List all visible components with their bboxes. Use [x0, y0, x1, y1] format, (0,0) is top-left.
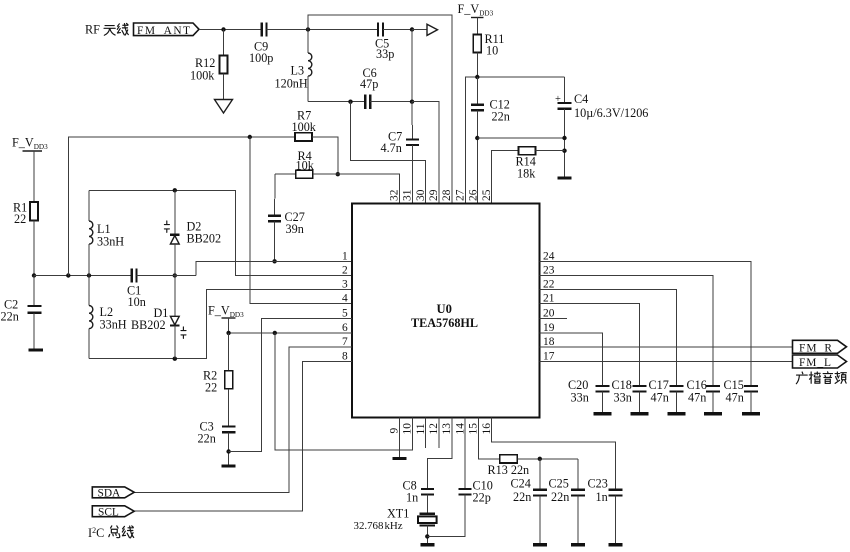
wire pin 18 to FM_R: [540, 346, 793, 348]
svg-text:I2C: I2C: [88, 526, 104, 540]
pin 12 stub: [438, 418, 440, 449]
ground bar C23: [609, 543, 623, 546]
svg-text:22: 22: [14, 212, 26, 226]
ground bar C18: [631, 412, 649, 415]
svg-text:22: 22: [205, 381, 217, 395]
svg-text:26: 26: [468, 189, 480, 201]
svg-text:10: 10: [486, 44, 498, 58]
resistor R14: [492, 147, 565, 204]
svg-text:1n: 1n: [406, 491, 418, 505]
wire pin 6 net: [229, 332, 352, 334]
label R2 22: [203, 369, 217, 395]
capacitor C20: [596, 386, 610, 413]
capacitor C27: [268, 174, 281, 261]
label R11 10: [485, 32, 505, 58]
wire C9 to C5 with L3 tap: [267, 29, 378, 31]
svg-text:3: 3: [342, 278, 348, 290]
wire pin 4: [250, 137, 352, 304]
varactor D1: [170, 276, 186, 359]
tank bottom wire to pin 3: [89, 289, 352, 358]
wire FM_ANT to C9: [199, 29, 261, 31]
label C1 10n: [127, 284, 146, 310]
capacitor C9: [262, 23, 267, 37]
svg-text:6: 6: [342, 322, 348, 334]
capacitor C5: [378, 23, 412, 37]
svg-text:17: 17: [543, 350, 555, 362]
junction L1 L2 mid: [87, 273, 91, 277]
capacitor C1: [132, 269, 196, 283]
wire pin 21 to C18: [540, 304, 640, 386]
svg-text:29: 29: [428, 189, 440, 201]
inductor L2: [89, 306, 93, 359]
svg-text:SCL: SCL: [98, 507, 119, 519]
label C17 47n: [649, 378, 669, 405]
inductor L1: [89, 190, 93, 305]
junction R11 bottom: [475, 75, 479, 79]
power terminal F_VDD3 (left): [12, 136, 48, 203]
junction at L3 top: [306, 27, 310, 31]
ground bar C24: [533, 543, 547, 546]
svg-text:33n: 33n: [614, 391, 632, 405]
label I2C bus (I2C 总线): [88, 526, 134, 540]
svg-text:10: 10: [402, 423, 414, 435]
capacitor C25: [571, 459, 585, 543]
svg-text:31: 31: [402, 189, 414, 201]
wire R4 node to pin 32: [338, 174, 400, 203]
ground bar XT1: [420, 543, 434, 546]
label C10 22p: [473, 479, 493, 505]
ground bar below C2: [29, 348, 44, 351]
capacitor C16: [706, 386, 720, 413]
wire pin 1 to tuning net: [196, 261, 352, 275]
resistor R2: [225, 333, 233, 426]
antenna ground triangle: [215, 100, 233, 114]
wire varactor control net (middle wire): [34, 275, 132, 277]
label R12 100k: [190, 56, 215, 83]
junction C4 at R14 wire: [562, 149, 566, 153]
capacitor C6: [365, 95, 412, 110]
junction F_VDD3 branch: [66, 273, 70, 277]
svg-text:22n: 22n: [1, 310, 19, 324]
label C5 33p: [375, 37, 394, 62]
resistor R1: [30, 202, 38, 276]
svg-text:RF: RF: [85, 23, 100, 37]
capacitor C15: [744, 386, 758, 413]
junction pin6 drop: [273, 331, 277, 335]
pin 11 stub: [425, 418, 427, 449]
label C16 47n: [687, 378, 707, 405]
label R4 10k: [296, 149, 315, 173]
svg-text:100k: 100k: [190, 69, 215, 83]
IC U0 TEA5768HL: [352, 204, 540, 418]
wire C12 node to C4 node: [477, 137, 564, 139]
junction tank mid at varactors: [173, 273, 177, 277]
label R1 22: [13, 201, 27, 227]
ground bar pin 9: [392, 457, 406, 460]
svg-text:33nH: 33nH: [97, 235, 124, 249]
junction R1 C2: [32, 273, 36, 277]
svg-text:10k: 10k: [296, 159, 315, 173]
svg-text:16: 16: [481, 423, 493, 435]
junction pin 4 drop: [248, 135, 252, 139]
svg-text:5: 5: [342, 307, 348, 319]
wire R11 node to pin 27 and C4 branch: [465, 77, 564, 204]
label C25 22n: [549, 477, 570, 505]
wire top loop to pin 28: [308, 15, 452, 204]
label R14 18k: [516, 155, 537, 181]
svg-text:39n: 39n: [286, 222, 304, 236]
buffer arrow symbol: [412, 24, 438, 35]
svg-text:25: 25: [481, 189, 493, 201]
svg-text:C4: C4: [574, 92, 588, 106]
svg-text:22: 22: [543, 278, 555, 290]
wire pin6 node down to pin 10: [275, 333, 413, 450]
wire C6 left node to pin 30: [351, 102, 426, 204]
label C3 22n: [198, 420, 216, 446]
capacitor C7 on pin 31 column: [406, 102, 419, 204]
net flag FM_R: [793, 340, 847, 354]
label RF antenna (RF 天线): [85, 23, 128, 37]
svg-text:24: 24: [543, 250, 555, 262]
label R7 100k: [292, 109, 317, 135]
label L2 33nH: [100, 305, 127, 332]
label L1 33nH: [97, 222, 124, 249]
svg-text:33n: 33n: [571, 391, 589, 405]
capacitor C23: [609, 490, 623, 543]
svg-text:C24: C24: [511, 477, 531, 491]
svg-text:BB202: BB202: [187, 232, 222, 246]
svg-text:33nH: 33nH: [100, 318, 127, 332]
svg-text:U0: U0: [437, 302, 452, 316]
label C27 39n: [285, 210, 305, 236]
junction R2 top: [226, 331, 230, 335]
svg-text:28: 28: [441, 189, 453, 201]
junction at R12 top: [221, 27, 225, 31]
svg-text:4.7n: 4.7n: [381, 141, 402, 155]
svg-text:33p: 33p: [376, 47, 394, 61]
net flag SDA: [92, 487, 134, 500]
junction D1 bottom: [173, 357, 177, 361]
resistor R7: [295, 133, 338, 174]
varactor D2: [164, 190, 179, 275]
capacitor C8: [421, 489, 434, 513]
junction C24 top: [538, 457, 542, 461]
svg-text:100k: 100k: [292, 120, 317, 134]
wire pin 9 to ground: [398, 418, 400, 458]
svg-text:18: 18: [543, 336, 555, 348]
wire pin 17 to FM_L: [540, 360, 793, 362]
svg-text:1n: 1n: [596, 490, 608, 504]
svg-text:22n: 22n: [198, 432, 216, 446]
label C18 33n: [612, 378, 632, 405]
svg-text:20: 20: [543, 307, 555, 319]
resistor R11: [473, 35, 481, 78]
junction XT1 bottom: [425, 534, 429, 538]
wire pin 23 to C16: [540, 275, 714, 385]
wire pin 24 to C15: [540, 261, 752, 385]
label C2 22n: [1, 298, 19, 324]
svg-text:30: 30: [415, 189, 427, 201]
svg-text:R13 22n: R13 22n: [488, 463, 530, 477]
svg-text:10n: 10n: [128, 295, 146, 309]
resistor R4: [275, 170, 338, 178]
svg-text:13: 13: [441, 423, 453, 435]
svg-text:27: 27: [454, 189, 466, 201]
ground bar C15: [742, 412, 760, 415]
ground bar below C4: [558, 176, 572, 179]
power terminal F_VDD3 (top): [458, 2, 494, 35]
wire C5 node down to C6 node: [411, 30, 413, 102]
junction C6 right: [410, 100, 414, 104]
pin 20 stub: [540, 317, 568, 319]
label D2 BB202: [187, 220, 222, 246]
svg-text:15: 15: [468, 423, 480, 435]
label C4 10u/6.3V/1206: [574, 92, 648, 120]
svg-text:C25: C25: [549, 477, 569, 491]
svg-text:47n: 47n: [726, 391, 744, 405]
net flag FM_ANT: [134, 23, 200, 37]
svg-text:120nH: 120nH: [275, 77, 308, 91]
svg-text:21: 21: [543, 293, 555, 305]
label C6 47p: [360, 66, 378, 91]
svg-text:100p: 100p: [249, 51, 273, 65]
label C9 100p: [249, 40, 273, 66]
junction after C5: [410, 27, 414, 31]
svg-text:TEA5768HL: TEA5768HL: [411, 316, 478, 330]
svg-text:C23: C23: [588, 477, 608, 491]
net flag SCL: [92, 506, 134, 519]
ground bar below C3: [222, 464, 236, 467]
label L3 120nH: [275, 64, 308, 91]
ground bar C16: [704, 412, 722, 415]
junction C12 bottom: [475, 136, 479, 140]
capacitor C3: [222, 427, 236, 466]
svg-text:14: 14: [454, 423, 466, 435]
resistor R13: [500, 455, 578, 463]
capacitor C12 on pin 26 column: [471, 77, 484, 204]
svg-text:FM_L: FM_L: [799, 357, 831, 369]
label C23 1n: [588, 477, 608, 505]
svg-text:FM_R: FM_R: [799, 343, 832, 355]
label C24 22n: [511, 477, 532, 505]
svg-text:1: 1: [342, 250, 348, 262]
svg-text:47n: 47n: [651, 391, 669, 405]
label C20 33n: [568, 378, 589, 405]
label C8 1n: [403, 479, 419, 505]
ground bar C17: [668, 412, 686, 415]
label C7 4.7n: [381, 130, 403, 156]
wire pin 5 to C3 node: [229, 318, 352, 451]
capacitor C18: [633, 386, 647, 413]
svg-text:32: 32: [389, 189, 401, 201]
resistor R12: [220, 30, 228, 100]
svg-text:L3: L3: [291, 64, 305, 78]
svg-text:9: 9: [389, 428, 401, 434]
wire pin 8 to SCL: [134, 361, 352, 511]
svg-text:47n: 47n: [688, 391, 706, 405]
junction C6 left: [348, 100, 352, 104]
junction C3 bottom: [226, 449, 230, 453]
svg-text:10µ/6.3V/1206: 10µ/6.3V/1206: [574, 106, 648, 120]
svg-text:XT1: XT1: [387, 507, 409, 521]
svg-text:4: 4: [342, 293, 348, 305]
label C15 47n: [724, 378, 744, 405]
svg-text:22n: 22n: [492, 110, 510, 124]
svg-text:22n: 22n: [513, 490, 531, 504]
svg-text:BB202: BB202: [131, 318, 166, 332]
capacitor C10: [427, 489, 471, 536]
wire up to R7 feed line: [68, 137, 295, 276]
capacitor C24: [533, 459, 547, 543]
wire C6 node to pin 29: [412, 102, 439, 204]
wire pin 19 to C20: [540, 333, 603, 386]
svg-text:22n: 22n: [551, 490, 569, 504]
wire pin 13 to C8: [427, 418, 452, 489]
svg-text:47p: 47p: [360, 77, 378, 91]
svg-text:2: 2: [342, 264, 348, 276]
svg-text:23: 23: [543, 264, 555, 276]
svg-text:SDA: SDA: [98, 488, 122, 500]
junction C27 on pin 1 wire: [272, 259, 276, 263]
capacitor C17: [670, 386, 684, 413]
svg-text:FM_ANT: FM_ANT: [137, 25, 190, 37]
svg-text:19: 19: [543, 322, 555, 334]
wire pin 15 to R13: [478, 418, 499, 459]
power terminal F_VDD3 (at R2): [208, 304, 244, 333]
wire pin 22 to C17: [540, 289, 677, 385]
wire pin 16 to C23: [492, 418, 616, 490]
capacitor C4 electrolytic: [555, 77, 571, 177]
inductor L3: [308, 30, 312, 102]
ground bar C25: [571, 543, 585, 546]
svg-text:8: 8: [342, 350, 348, 362]
wire pin 14 through C10 to XT1 bottom: [464, 418, 466, 489]
svg-text:11: 11: [415, 423, 427, 434]
svg-text:32.768kHz: 32.768kHz: [354, 520, 403, 532]
net flag FM_L: [793, 355, 847, 369]
ground bar C20: [594, 412, 612, 415]
junction R4 R7: [336, 172, 340, 176]
junction C4 at C12 wire: [562, 136, 566, 140]
svg-text:18k: 18k: [517, 167, 536, 181]
label C12 22n: [490, 98, 510, 124]
label broadcast audio (广播音频): [796, 372, 846, 384]
wire L3 bottom to C6: [308, 101, 365, 103]
svg-text:12: 12: [428, 423, 440, 435]
wire pin 7 to SDA: [134, 347, 352, 492]
svg-text:22p: 22p: [473, 491, 491, 505]
label XT1 32.768kHz: [354, 507, 410, 533]
tank top wire to pin 2: [89, 190, 352, 275]
capacitor C2: [28, 276, 42, 349]
junction D2 top: [173, 188, 177, 192]
label D1 BB202: [131, 306, 168, 332]
crystal XT1: [418, 514, 437, 543]
svg-text:7: 7: [342, 336, 348, 348]
